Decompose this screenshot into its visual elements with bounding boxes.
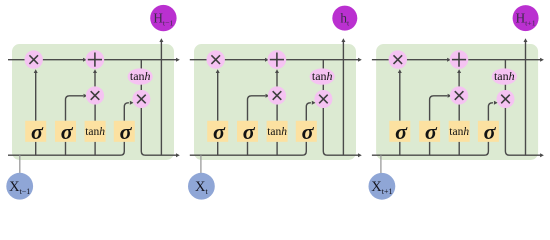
cell 3 background block [376, 44, 538, 160]
wire: cell 3 multiply3 output down, right, exits (h path) [505, 99, 541, 155]
arrowhead: cell 1 multiply2 into plus [93, 69, 97, 73]
arrowhead: cell 3 sigma2 into multiply2 [448, 94, 452, 98]
wire: cell 1 feed to sigma1 [35, 142, 37, 155]
tanh gate box: cell 1 [85, 121, 106, 142]
svg-text:tanh: tanh [494, 69, 515, 83]
arrowhead: cell 3 into plus node [447, 58, 451, 62]
wire: cell 3 branch up to H output [525, 42, 527, 155]
arrowhead: cell 2 sigma1 into multiply1 [216, 69, 220, 73]
node Ht&#8722;1: cell 1 hidden state output circle [150, 5, 176, 31]
tanh gate box: cell 3 [449, 121, 470, 142]
wire: cell 3 tanh ellipse to multiply3 [504, 77, 506, 99]
wire: cell 3 hidden-state line (bottom horizontal into sigma4) [372, 142, 489, 155]
sigma2 gate (input): cell 1 [55, 119, 76, 144]
wire: cell 1 sigma1 to multiply1 [35, 72, 37, 121]
svg-text:σ: σ [243, 119, 256, 144]
wire: cell 1 multiply3 output down, right, exits (h path) [141, 99, 177, 155]
wire: cell 3 multiply2 to plus node [458, 72, 460, 96]
wire: cell 3 input from X node (grey) [380, 155, 382, 173]
cell 2 background block [194, 44, 356, 160]
wire: cell 1 multiply2 to plus node [94, 72, 96, 96]
wire: cell 1 tanh ellipse to multiply3 [140, 77, 142, 99]
multiply2 node: cell 2 pointwise product circle [268, 86, 286, 104]
arrowhead: cell 2 up into H node [341, 38, 345, 42]
plus node: cell 2 pointwise sum circle [268, 50, 287, 69]
arrowhead: cell 2 multiply2 into plus [275, 69, 279, 73]
multiply2 node: cell 1 pointwise product circle [86, 86, 104, 104]
wire: cell 2 branch up to H output [342, 42, 344, 155]
multiply3 node: cell 2 pointwise product circle [314, 90, 332, 108]
multiply2 node: cell 3 pointwise product circle [450, 86, 468, 104]
arrowhead: cell 3 multiply2 into plus [457, 69, 461, 73]
svg-text:σ: σ [213, 119, 226, 144]
wire: cell 2 multiply2 to plus node [276, 72, 278, 96]
svg-text:tanh: tanh [312, 69, 333, 83]
multiply3 node: cell 1 pointwise product circle [132, 90, 150, 108]
arrowhead: cell 2 hidden-state exit [358, 153, 362, 157]
wire: cell 3 cell-state line (top horizontal) [372, 59, 541, 61]
multiply1 node: cell 3 pointwise product circle [389, 50, 407, 68]
wire: cell 1 cell-state branch down to tanh ellipse [140, 60, 142, 77]
arrowhead: cell 3 sigma1 into multiply1 [398, 69, 402, 73]
plus node: cell 3 pointwise sum circle [450, 50, 469, 69]
multiply1 node: cell 1 pointwise product circle [25, 50, 43, 68]
wire: cell 1 cell-state line (top horizontal) [8, 59, 177, 61]
multiply1 node: cell 2 pointwise product circle [207, 50, 225, 68]
wire: cell 2 tanh ellipse to multiply3 [322, 77, 324, 99]
wire: cell 2 cell-state line (top horizontal) [190, 59, 359, 61]
svg-text:tanh: tanh [130, 69, 151, 83]
svg-text:σ: σ [484, 119, 497, 144]
plus node: cell 1 pointwise sum circle [86, 50, 105, 69]
arrowhead: cell 1 hidden-state exit [176, 153, 180, 157]
arrowhead: cell 1 up into H node [159, 38, 163, 42]
arrowhead: cell 2 into plus node [265, 58, 269, 62]
arrowhead: cell 2 sigma2 into multiply2 [266, 94, 270, 98]
wire: cell 2 hidden-state line (bottom horizontal into sigma4) [190, 142, 306, 155]
arrowhead: cell 1 into plus node [83, 58, 87, 62]
wire: cell 1 tanh box to multiply2 [94, 96, 96, 121]
tanh ellipse: cell 2 output activation [310, 68, 335, 84]
sigma2 gate (input): cell 2 [237, 119, 258, 144]
wire: cell 3 tanh box to multiply2 [458, 96, 460, 121]
wire: cell 2 sigma4 to multiply3 (up and right) [306, 103, 311, 121]
arrowhead: cell 1 sigma1 into multiply1 [34, 69, 38, 73]
svg-text:σ: σ [31, 119, 44, 144]
svg-text:σ: σ [61, 119, 74, 144]
wire: cell 3 sigma2 to multiply2 (up and right) [430, 96, 448, 121]
svg-text:tanh: tanh [85, 126, 105, 138]
sigma1 gate (forget): cell 1 [25, 119, 46, 144]
arrowhead: cell 2 sigma4 into multiply3 [312, 101, 316, 105]
arrowhead: cell 3 hidden-state exit [540, 153, 544, 157]
svg-text:σ: σ [395, 119, 408, 144]
wire: cell 1 sigma2 to multiply2 (up and right) [66, 96, 84, 121]
wire: cell 2 sigma1 to multiply1 [217, 72, 219, 121]
node Xt: cell 2 input circle [188, 173, 215, 200]
wire: cell 2 tanh box to multiply2 [276, 96, 278, 121]
sigma1 gate (forget): cell 3 [389, 119, 410, 144]
wire: cell 3 cell-state branch down to tanh ellipse [504, 60, 506, 77]
sigma4 gate (output): cell 1 [114, 119, 135, 144]
svg-text:tanh: tanh [449, 126, 469, 138]
wire: cell 2 sigma2 to multiply2 (up and right) [248, 96, 266, 121]
arrowhead: cell 1 sigma2 into multiply2 [84, 94, 88, 98]
wire: cell 1 input from X node (grey) [19, 155, 21, 173]
node Xt+1: cell 3 input circle [369, 173, 396, 200]
wire: cell 1 feed to tanh box [94, 142, 96, 155]
arrowhead: cell 1 sigma4 into multiply3 [130, 101, 134, 105]
svg-text:σ: σ [120, 119, 133, 144]
wire: cell 2 feed to sigma2 [247, 142, 249, 155]
cell 1 background block [12, 44, 174, 160]
sigma4 gate (output): cell 3 [478, 119, 499, 144]
wire: cell 2 feed to sigma1 [217, 142, 219, 155]
wire: cell 1 hidden-state line (bottom horizontal into sigma4) [8, 142, 124, 155]
wire: cell 1 feed to sigma2 [65, 142, 67, 155]
node Ht+1: cell 3 hidden state output circle [513, 5, 539, 31]
wire: cell 3 feed to tanh box [458, 142, 460, 155]
wire: cell 3 feed to sigma2 [429, 142, 431, 155]
wire: cell 1 sigma4 to multiply3 (up and right) [124, 103, 129, 121]
arrowhead: cell 3 cell-state exit [540, 58, 544, 62]
svg-text:σ: σ [425, 119, 438, 144]
wire: cell 2 input from X node (grey) [200, 155, 202, 173]
wire: cell 2 feed to tanh box [276, 142, 278, 155]
multiply3 node: cell 3 pointwise product circle [497, 90, 515, 108]
arrowhead: cell 3 up into H node [524, 38, 528, 42]
wire: cell 1 branch up to H output [160, 42, 162, 155]
wire: cell 2 cell-state branch down to tanh ellipse [322, 60, 324, 77]
wire: cell 3 feed to sigma1 [399, 142, 401, 155]
wire: cell 3 sigma4 to multiply3 (up and right) [488, 103, 493, 121]
sigma1 gate (forget): cell 2 [207, 119, 228, 144]
svg-text:tanh: tanh [267, 126, 287, 138]
tanh ellipse: cell 3 output activation [492, 68, 517, 84]
tanh ellipse: cell 1 output activation [128, 68, 153, 84]
node Xt&#8722;1: cell 1 input circle [6, 173, 33, 200]
svg-text:σ: σ [302, 119, 315, 144]
arrowhead: cell 3 sigma4 into multiply3 [494, 101, 498, 105]
arrowhead: cell 1 cell-state exit [176, 58, 180, 62]
wire: cell 3 sigma1 to multiply1 [399, 72, 401, 121]
sigma4 gate (output): cell 2 [296, 119, 317, 144]
arrowhead: cell 2 cell-state exit [358, 58, 362, 62]
tanh gate box: cell 2 [267, 121, 288, 142]
wire: cell 2 multiply3 output down, right, exits (h path) [323, 99, 359, 155]
node ht: cell 2 hidden state output circle [332, 6, 357, 31]
sigma2 gate (input): cell 3 [419, 119, 440, 144]
